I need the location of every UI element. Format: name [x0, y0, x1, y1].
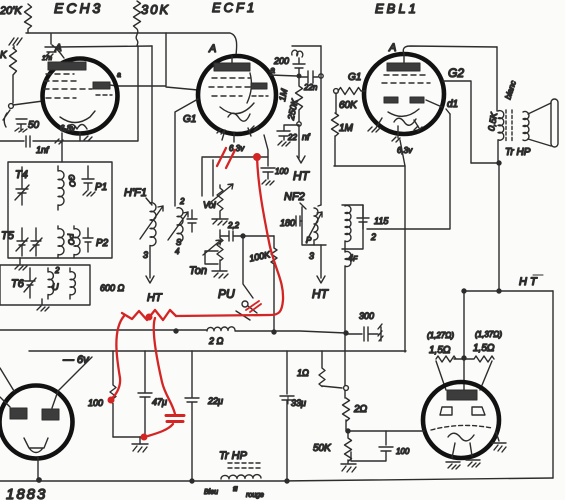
node junction	[241, 234, 245, 238]
anode plate EBL1	[387, 63, 420, 71]
svg-text:H T: H T	[519, 276, 538, 288]
svg-text:6,3v: 6,3v	[60, 124, 76, 133]
wire cathode down	[404, 166, 406, 352]
pins EBL1	[368, 118, 422, 142]
wire plate supply vertical	[320, 46, 322, 205]
svg-text:3: 3	[309, 251, 314, 261]
svg-text:1,5Ω: 1,5Ω	[429, 345, 451, 356]
heater ECF1	[228, 113, 250, 121]
HT arrow	[146, 276, 154, 283]
capacitor HF1	[187, 210, 197, 232]
svg-text:P1: P1	[95, 182, 107, 193]
coil Tr HP bottom	[221, 475, 261, 479]
tuner box T4 T5	[8, 162, 112, 258]
capacitor 133u	[280, 351, 294, 481]
red scribble over PU switch	[246, 301, 261, 312]
arrow NF2	[306, 212, 322, 242]
red capacitor	[166, 416, 184, 422]
node 100K bottom	[272, 330, 276, 334]
coil NF2 primary	[314, 205, 321, 245]
node 300	[344, 331, 348, 335]
ground bias	[132, 444, 148, 452]
potentiometer Vol	[217, 185, 223, 218]
svg-text:100: 100	[396, 447, 410, 456]
wire HT to output center	[463, 291, 465, 390]
capacitor variable arc	[3, 110, 10, 127]
tube U3 EBL1	[364, 54, 444, 134]
svg-text:HT: HT	[312, 287, 330, 301]
wire NF2 to HT	[320, 245, 322, 278]
node divider tap	[297, 122, 301, 126]
svg-text:P: P	[306, 236, 312, 245]
resistor 1M grid leak	[332, 93, 339, 166]
svg-text:T6: T6	[11, 278, 25, 290]
grid dashes EBL1	[382, 75, 430, 83]
core Tr HP bottom	[228, 463, 262, 468]
red resistor squiggle	[122, 310, 176, 320]
grid dashes ECF1	[209, 78, 252, 96]
wire rectifier output	[37, 457, 39, 481]
svg-text:a: a	[117, 72, 121, 79]
pins ECF1	[217, 126, 258, 142]
resistor 1,5 ohm left	[436, 356, 464, 362]
svg-text:6,3v: 6,3v	[229, 144, 245, 153]
antenna hatch	[9, 38, 22, 48]
cathode EBL1	[388, 109, 419, 116]
red node at 100 ohm	[108, 397, 115, 404]
svg-text:P2: P2	[96, 238, 109, 249]
wire HF1 to HT	[149, 246, 151, 278]
wire screen to HT node	[471, 162, 497, 164]
resistor 1M 250K divider	[296, 77, 303, 123]
svg-text:Ton: Ton	[189, 265, 207, 277]
svg-text:33μ: 33μ	[291, 398, 306, 408]
capacitor 22n coupling	[299, 71, 318, 83]
wire rect anode right	[52, 357, 92, 408]
ground T6	[37, 299, 49, 311]
svg-text:47μ: 47μ	[152, 397, 167, 407]
svg-text:3: 3	[143, 250, 148, 260]
svg-text:HT: HT	[293, 169, 311, 183]
capacitor coupling to Ton	[220, 230, 243, 241]
capacitor 200	[293, 64, 305, 75]
red slash marks	[217, 148, 235, 168]
coil U	[48, 268, 53, 299]
svg-text:2Ω: 2Ω	[353, 404, 368, 415]
svg-text:EBL1: EBL1	[375, 1, 419, 16]
node HT mid	[497, 289, 501, 293]
node 22u bottom	[190, 479, 194, 483]
svg-text:A: A	[208, 43, 216, 55]
heater output	[448, 433, 474, 441]
svg-text:(1,37Ω): (1,37Ω)	[475, 330, 502, 339]
ground pin left	[446, 462, 460, 469]
wire bus to HF1 primary	[151, 46, 153, 203]
arrow HF1 secondary	[168, 212, 188, 240]
node 133u bottom	[285, 479, 289, 483]
wire cathode bias junction	[113, 436, 145, 438]
wire node top bus	[292, 45, 321, 47]
svg-text:d1: d1	[447, 99, 458, 110]
tube U2 ECF1	[198, 56, 276, 134]
svg-text:1M: 1M	[339, 123, 354, 134]
capacitor 47u	[138, 351, 152, 437]
wire AVC bus right	[235, 331, 346, 333]
svg-text:A: A	[54, 43, 62, 54]
svg-text:GO: GO	[67, 174, 77, 187]
resistor 50K	[345, 431, 352, 463]
svg-text:600 Ω: 600 Ω	[100, 283, 125, 293]
grid dashes ECH3	[44, 74, 92, 98]
svg-text:Tr HP: Tr HP	[219, 450, 248, 462]
wire tap to HT	[298, 125, 300, 158]
coil 200 stub	[292, 50, 303, 63]
svg-text:20'K: 20'K	[0, 5, 22, 17]
resistor R 30K	[134, 1, 141, 46]
capacitor 22nf	[277, 125, 299, 146]
resistor 1,5 ohm right	[464, 356, 494, 362]
trimmer capacitors T5	[16, 228, 28, 256]
coil NF secondary	[345, 205, 351, 398]
trimmer capacitor T4	[15, 167, 29, 205]
svg-text:HT: HT	[147, 292, 163, 304]
svg-text:22n: 22n	[303, 83, 318, 92]
node grid terminal	[9, 104, 14, 109]
resistor 100K	[271, 236, 277, 330]
wire step from bus down to grid line	[117, 33, 198, 90]
svg-text:G2: G2	[448, 66, 464, 80]
ground Ton	[212, 271, 228, 278]
red node dot	[253, 153, 261, 161]
svg-text:2: 2	[179, 197, 185, 206]
tube U1 ECH3	[43, 59, 118, 134]
node HT junction	[497, 161, 501, 165]
cathode ECF1	[220, 103, 254, 114]
ground right of tube	[492, 432, 506, 452]
switch PU	[243, 238, 253, 298]
capacitor 180	[296, 216, 302, 226]
electrode left	[440, 407, 452, 415]
capacitor 1nf line	[0, 136, 30, 147]
svg-text:22μ: 22μ	[207, 396, 223, 406]
diode plates EBL1	[384, 97, 398, 103]
coil T6 secondary	[70, 268, 75, 299]
wire HT bus right	[464, 290, 553, 292]
svg-text:Tr HP: Tr HP	[505, 147, 531, 158]
red wire to 100 ohm	[111, 316, 124, 399]
svg-text:ECF1: ECF1	[212, 0, 257, 15]
red node at ground	[141, 434, 148, 441]
wire screen G2	[443, 81, 471, 163]
svg-text:— 6v: — 6v	[62, 354, 90, 366]
wire bottom bus	[0, 478, 553, 481]
svg-text:(1,27Ω): (1,27Ω)	[427, 331, 454, 340]
wire ECH3 pin to tuner box	[61, 143, 63, 162]
svg-text:6,3v: 6,3v	[397, 146, 413, 155]
svg-text:100: 100	[275, 167, 289, 176]
wire bus y46 triode anode	[57, 46, 152, 47]
grid dashed output	[431, 425, 492, 430]
NF output coil box	[342, 205, 363, 249]
svg-text:100: 100	[88, 398, 103, 408]
wire detector return y229	[367, 114, 450, 229]
anode plate ECH3	[48, 62, 86, 70]
tuner box T6	[0, 265, 90, 305]
svg-text:17n: 17n	[42, 56, 53, 62]
anode small plate ECF1	[251, 83, 267, 89]
coil GO	[58, 166, 64, 210]
svg-text:2: 2	[370, 232, 376, 242]
capacitor 50	[15, 119, 27, 132]
coil 2 ohm	[207, 327, 235, 331]
wire cathode line y166	[334, 140, 405, 166]
terminal G1	[334, 89, 339, 94]
pins output	[452, 443, 472, 458]
NF2 box	[302, 207, 326, 245]
wire G1 lead to HF1 secondary	[175, 99, 198, 206]
capacitor P2	[83, 228, 93, 252]
electrode right	[472, 407, 485, 415]
svg-text:50K: 50K	[313, 443, 332, 454]
transformer Tr HP secondary	[523, 112, 529, 141]
wire top bus to ECF1 anode	[26, 33, 237, 55]
wire ECF1 anode a to node	[270, 75, 297, 76]
svg-text:Vol: Vol	[203, 200, 217, 210]
svg-text:fil: fil	[233, 487, 238, 493]
transformer Tr HP primary	[498, 111, 504, 162]
wire cathode output	[348, 430, 424, 432]
capacitor P1	[82, 166, 95, 196]
wire AVC bus y330	[0, 329, 207, 331]
svg-text:T5: T5	[1, 230, 15, 242]
svg-text:180: 180	[280, 218, 295, 228]
svg-text:30K: 30K	[141, 2, 170, 17]
svg-text:1Ω: 1Ω	[297, 368, 309, 378]
trimmer capacitor T6	[24, 268, 36, 298]
red wire main curve	[176, 157, 283, 316]
resistor 2 ohm	[343, 398, 350, 431]
resistor K	[10, 48, 17, 103]
red wire to capacitor	[154, 318, 175, 414]
svg-text:G1: G1	[348, 72, 361, 83]
svg-text:60K: 60K	[339, 100, 358, 111]
coil HF1 secondary	[177, 208, 183, 243]
tube U4 rectifier 1883	[0, 386, 73, 459]
heater rectifier	[24, 438, 48, 453]
anode a small plate ECH3	[93, 82, 110, 89]
potentiometer Ton	[205, 238, 223, 270]
wire osc anode down to 1nf	[33, 46, 138, 141]
svg-text:A: A	[388, 42, 396, 54]
capacitor 47n at anode	[45, 34, 64, 58]
svg-text:ECH3: ECH3	[54, 0, 103, 16]
HT arrow	[297, 156, 305, 163]
svg-text:a: a	[270, 65, 275, 75]
heater ECH3	[67, 125, 87, 130]
shield box volume	[202, 158, 213, 196]
red annotation overlay	[108, 148, 284, 441]
node anode ECF1	[297, 74, 301, 78]
anode plate output	[447, 390, 477, 400]
capacitor 100 at node	[261, 135, 275, 185]
heater EBL1	[394, 118, 416, 125]
pins ECH3	[55, 133, 92, 144]
anode plate ECF1	[214, 63, 250, 71]
svg-text:115: 115	[374, 216, 389, 226]
wire funnel right	[480, 361, 492, 390]
svg-text:NF2: NF2	[284, 191, 305, 203]
coil PO	[58, 226, 64, 258]
transformer core	[506, 110, 512, 142]
wire grid to ECH3	[13, 101, 43, 105]
resistor 60K	[338, 88, 365, 95]
svg-text:rouge: rouge	[246, 492, 264, 499]
wire anode a stub	[110, 85, 117, 86]
red wire capacitor to ground node	[148, 424, 173, 436]
svg-text:G1: G1	[183, 114, 196, 125]
tube U5 output	[423, 382, 499, 458]
ground Vol with 2,2	[212, 219, 228, 225]
svg-text:1,5Ω: 1,5Ω	[473, 343, 495, 354]
svg-text:22: 22	[287, 133, 297, 142]
HT arrow	[317, 276, 325, 283]
arrow HF1 primary	[140, 206, 163, 239]
node avc bus	[174, 329, 178, 333]
wire rect anode left	[0, 368, 14, 407]
red node on squiggle	[146, 314, 153, 321]
svg-text:U: U	[52, 282, 59, 292]
wire right edge down	[552, 291, 554, 478]
anode plate rect right	[42, 409, 59, 420]
ground 50K	[341, 464, 356, 472]
svg-text:2,2: 2,2	[227, 221, 240, 230]
wire funnel left	[436, 361, 446, 390]
svg-text:200: 200	[273, 56, 289, 66]
svg-text:2: 2	[54, 266, 60, 275]
speaker	[528, 103, 551, 146]
wire anode EBL1 to HT line	[403, 46, 497, 54]
svg-text:4: 4	[175, 247, 180, 256]
svg-text:300: 300	[359, 311, 374, 321]
wire HT node down	[498, 163, 500, 291]
svg-text:2 Ω: 2 Ω	[208, 336, 224, 346]
capacitor 115	[357, 205, 369, 229]
capacitor 100 cathode	[351, 431, 393, 461]
partition ECF1	[247, 73, 251, 103]
wire d1 to detector	[426, 100, 450, 114]
svg-text:PO: PO	[66, 233, 76, 245]
svg-text:1nf: 1nf	[36, 145, 50, 155]
resistor R 20K	[25, 4, 32, 33]
ground pin right	[466, 460, 480, 467]
anode plate rect left	[10, 408, 27, 419]
capacitor 22u	[185, 351, 199, 481]
wire screened lead	[202, 156, 268, 158]
coil T5 secondary	[74, 226, 80, 258]
coil HF1 primary	[150, 203, 156, 246]
svg-text:S: S	[176, 238, 182, 247]
node HT left	[462, 289, 466, 293]
svg-text:50: 50	[28, 120, 40, 131]
wire node to 100K	[243, 235, 274, 237]
ground below tuner box	[15, 258, 27, 270]
wire bias bus y351	[29, 350, 406, 352]
svg-text:PU: PU	[218, 287, 235, 301]
svg-text:H'F1: H'F1	[124, 187, 147, 199]
svg-text:Bleu: Bleu	[204, 489, 218, 496]
svg-text:1883: 1883	[6, 486, 47, 500]
cathode ECH3	[60, 111, 95, 123]
wire anode down to Tr HP	[496, 47, 498, 111]
